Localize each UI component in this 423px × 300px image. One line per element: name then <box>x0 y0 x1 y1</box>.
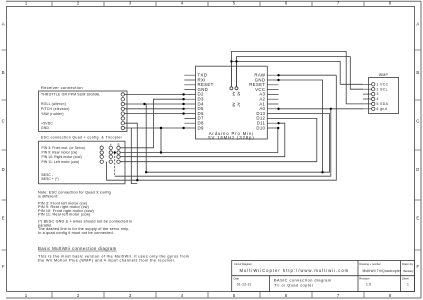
junction D6 <box>182 112 184 114</box>
IC U1 Arduino Pro Mini <box>184 66 278 140</box>
J3 pin 1 <box>372 83 375 86</box>
junction D2 <box>182 93 184 95</box>
junction ROLL branch <box>143 103 145 105</box>
svg-text:D9: D9 <box>198 125 204 130</box>
wire Arduino A0 to WMP gnd <box>279 108 364 110</box>
wire ROLL to D4 <box>124 103 184 105</box>
svg-text:THROTTLE OR PPM SUM SIGNAL: THROTTLE OR PPM SUM SIGNAL <box>41 93 100 97</box>
frame column ticks top <box>52 1 364 6</box>
svg-text:5 SDA: 5 SDA <box>377 102 389 106</box>
J1 pin 1 <box>121 93 124 96</box>
svg-text:BESC + (*): BESC + (*) <box>42 177 59 181</box>
svg-text:Berkely: Berkely <box>404 269 415 273</box>
connector J2 ESC connection <box>39 135 126 183</box>
wire ESC PIN11 signal to D12 <box>120 118 317 161</box>
svg-text:PIN 10: Right motor (ccw): PIN 10: Right motor (ccw) <box>42 155 82 159</box>
junction ground trunk mid <box>321 171 323 173</box>
wire servo supply dashed <box>114 153 116 177</box>
junction GND pin right <box>277 79 279 81</box>
frame column ticks bottom <box>52 292 364 299</box>
svg-text:MultiWiiCopter http://www.mul: MultiWiiCopter http://www.multiwii.com <box>240 268 350 273</box>
frame column numbers bottom <box>25 293 392 298</box>
J1 pin 7 <box>121 122 124 125</box>
svg-text:5V 16MHz (328p): 5V 16MHz (328p) <box>208 135 254 140</box>
junction WMP gnd <box>330 108 332 110</box>
svg-text:C: C <box>2 119 5 124</box>
svg-text:+5VDC: +5VDC <box>41 121 53 125</box>
wire gnd trunk to WMP gnd <box>115 109 331 176</box>
svg-text:01-12-11: 01-12-11 <box>237 282 252 286</box>
junction servo plus arrow <box>114 151 116 153</box>
svg-text:D: D <box>416 167 419 172</box>
wire A5 to WMP SCL <box>237 57 364 90</box>
svg-text:BASIC connection diagram: BASIC connection diagram <box>274 278 332 282</box>
junction A0 gnd wire <box>277 108 279 110</box>
svg-text:Drawn by: Drawn by <box>402 262 414 266</box>
J1 pin 3 <box>121 102 124 105</box>
wire minus column to +5V trunk <box>107 75 337 180</box>
junction D3 <box>182 98 184 100</box>
note basic diagram description <box>38 246 189 263</box>
svg-text:WMP: WMP <box>379 73 389 77</box>
wire A4 to WMP SDA <box>231 52 363 104</box>
svg-text:In a quad config it must not b: In a quad config it must not be connecte… <box>38 231 114 235</box>
J1 pin 2 <box>121 98 124 101</box>
junction A5 top rail <box>235 60 237 62</box>
junction dots <box>114 60 332 181</box>
title block <box>232 261 415 292</box>
wire Arduino GND pin to ground trunk <box>279 80 323 172</box>
svg-text:B: B <box>416 70 419 75</box>
wire WMP pin1 VCC stub link <box>340 83 363 85</box>
svg-text:C: C <box>416 119 419 124</box>
svg-text:Tri or Quad copter: Tri or Quad copter <box>274 283 314 287</box>
svg-text:E: E <box>2 216 5 221</box>
wire Arduino RAW pin to +5V trunk <box>279 74 337 76</box>
svg-text:6 gnd: 6 gnd <box>377 107 388 111</box>
J1 pin 6 <box>121 117 124 120</box>
svg-text:Circuit Diagram: Circuit Diagram <box>234 262 252 266</box>
junction D9 <box>182 127 184 129</box>
svg-text:ROLL (aileron): ROLL (aileron) <box>41 102 66 106</box>
svg-text:3: 3 <box>377 92 379 96</box>
svg-text:2 SCL: 2 SCL <box>377 87 388 91</box>
svg-text:E: E <box>416 216 419 221</box>
U1 right pin stubs <box>267 75 278 128</box>
svg-text:PITCH (elevator): PITCH (elevator) <box>41 107 70 111</box>
svg-text:A5: A5 <box>237 92 241 96</box>
svg-text:PIN 11: Rear left motor (ccw): PIN 11: Rear left motor (ccw) <box>38 213 91 217</box>
svg-text:BESC -: BESC - <box>42 173 54 177</box>
U1 pin A4 <box>230 87 233 90</box>
frame row ticks left <box>2 50 7 250</box>
wire GND row to D9 <box>124 127 184 129</box>
J3 pin 4 <box>372 97 375 100</box>
wire D13 loop to ground trunk <box>146 114 329 173</box>
J1 pin 4 <box>121 107 124 110</box>
J2 minus column pins <box>100 146 103 163</box>
J3 pin 6 <box>372 107 375 110</box>
junction D5 <box>182 108 184 110</box>
frame row ticks right <box>415 50 422 250</box>
frame column numbers top <box>25 1 392 6</box>
U1 left pin names <box>198 73 214 131</box>
wire VCC top rail to WMP pin1 <box>231 61 340 84</box>
U1 left pin stubs <box>184 75 195 128</box>
svg-text:GND: GND <box>41 126 49 130</box>
junction D10 stub <box>277 127 279 129</box>
svg-text:YAW (rudder): YAW (rudder) <box>41 112 64 116</box>
svg-text:Revision: Revision <box>359 276 370 280</box>
wire YAW to D6 <box>124 113 184 115</box>
svg-text:is different:: is different: <box>38 194 58 198</box>
wire ESC PIN3 signal to D3 <box>120 99 184 148</box>
J3 pin 2 <box>372 88 375 91</box>
svg-text:Receiver connection: Receiver connection <box>41 85 83 90</box>
J3 pin 5 <box>372 102 375 105</box>
wire PITCH to D5 <box>124 108 184 110</box>
svg-text:the Wii Motion Plus (WMP) and: the Wii Motion Plus (WMP) and 4 input ch… <box>38 259 176 263</box>
svg-text:D: D <box>2 167 5 172</box>
junction D9 drop <box>160 127 162 129</box>
svg-text:Drawing + number: Drawing + number <box>359 262 380 266</box>
svg-text:A4: A4 <box>232 92 236 96</box>
connector J3 WMP gyro I2C <box>363 73 399 114</box>
svg-text:1.9: 1.9 <box>366 282 371 286</box>
wire +5VDC down to supply trunk <box>124 123 137 180</box>
J1 pin 8 <box>121 126 124 129</box>
svg-text:PIN 11: Left motor (ccw): PIN 11: Left motor (ccw) <box>42 160 80 164</box>
svg-text:F: F <box>417 264 420 269</box>
wire ROLL branch down to ground trunk <box>145 104 147 172</box>
U1 right pin names <box>249 73 266 131</box>
junction +5V on supply trunk <box>136 179 138 181</box>
svg-text:ESC connection Quad + config.: ESC connection Quad + config. & Tricopte… <box>41 135 123 139</box>
J2 signal column pins <box>117 146 120 163</box>
svg-text:1: 1 <box>407 282 409 286</box>
J2 plus column pins <box>109 146 112 163</box>
svg-text:A6: A6 <box>232 103 236 107</box>
svg-text:A: A <box>416 22 419 27</box>
note Quad X config text <box>38 190 132 235</box>
svg-text:PIN 3: Front mot. (or Servo): PIN 3: Front mot. (or Servo) <box>42 146 85 150</box>
svg-text:1 VCC: 1 VCC <box>377 82 389 86</box>
junction RAW pin <box>277 74 279 76</box>
junction PIN9 rail <box>160 151 162 153</box>
wire ESC PIN10 signal to D11 <box>120 123 285 157</box>
wire GND drop left <box>131 128 137 184</box>
J1 pin 5 <box>121 112 124 115</box>
svg-text:MultiWii Tri/Quadcopter: MultiWii Tri/Quadcopter <box>363 269 403 273</box>
svg-text:D10: D10 <box>256 125 265 130</box>
svg-text:F: F <box>2 264 5 269</box>
J3 pin stubs <box>363 84 372 109</box>
svg-text:A7: A7 <box>237 103 241 107</box>
junction D4 <box>182 103 184 105</box>
U1 pin A5 <box>235 87 238 90</box>
wire A4 pin drop <box>230 61 232 87</box>
wire A5 pin drop <box>236 61 238 87</box>
connector J1 Receiver connection <box>39 85 128 132</box>
junction A4 top rail <box>230 60 232 62</box>
svg-text:Basic MultiWii connection diag: Basic MultiWii connection diagram <box>38 246 117 251</box>
frame row letters right <box>416 22 419 270</box>
svg-text:Date: Date <box>234 276 240 280</box>
junction ground trunk left <box>145 171 147 173</box>
wire ESC PIN9 signal rail to D10 <box>120 128 278 153</box>
frame row letters left <box>2 22 5 270</box>
svg-text:A: A <box>2 22 5 27</box>
svg-text:B: B <box>2 70 5 75</box>
svg-text:Sheet: Sheet <box>402 276 409 280</box>
svg-text:4: 4 <box>377 97 379 101</box>
wire D9 to ESC PIN9 drop <box>160 128 162 153</box>
J3 pin 3 <box>372 92 375 95</box>
junction D11 stub <box>277 122 279 124</box>
wire THROTTLE to D2 <box>124 93 184 95</box>
